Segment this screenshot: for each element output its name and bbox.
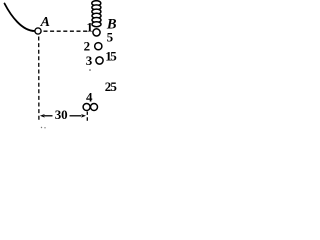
ball position 3 bbox=[96, 57, 103, 64]
dashed horizontal line from A to B bbox=[44, 30, 90, 32]
ball position 4 right (dropped ball) bbox=[91, 104, 98, 111]
svg-text:4: 4 bbox=[86, 90, 93, 105]
dashed vertical line below A bbox=[38, 37, 40, 123]
ball position 1 bbox=[93, 29, 100, 36]
svg-text:3: 3 bbox=[86, 53, 93, 68]
speck between 3 and 4 bbox=[89, 69, 91, 71]
svg-text:30: 30 bbox=[55, 107, 68, 122]
dashed tick below ball 4 bbox=[86, 112, 88, 122]
svg-text:1: 1 bbox=[86, 20, 93, 35]
ball position 4 left (projectile) bbox=[83, 104, 90, 111]
curved ramp bbox=[5, 4, 35, 32]
specks bottom bbox=[41, 127, 42, 128]
ball position 2 bbox=[95, 43, 102, 50]
svg-text:2: 2 bbox=[84, 39, 91, 54]
svg-text:A: A bbox=[40, 15, 50, 30]
point A marker bbox=[35, 28, 41, 34]
svg-text:25: 25 bbox=[105, 79, 118, 94]
dimension arrow right bbox=[70, 114, 87, 118]
dimension arrow left bbox=[40, 114, 53, 118]
svg-text:5: 5 bbox=[107, 30, 114, 45]
coil stack at B bbox=[92, 1, 101, 27]
